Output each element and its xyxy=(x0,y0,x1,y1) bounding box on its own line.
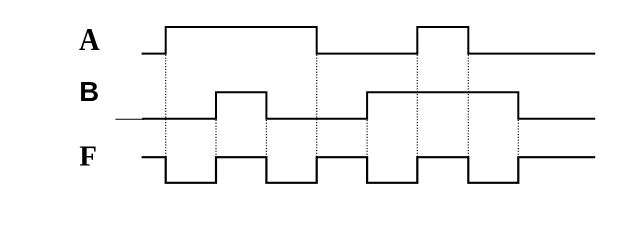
waveform B thin lead-in wire xyxy=(115,118,144,120)
waveform B trace (wire) xyxy=(142,92,595,118)
svg-text:B: B xyxy=(79,76,99,107)
dotted guide line t3 (B fall) xyxy=(265,120,267,157)
dotted guide line t5 (B rise) xyxy=(366,120,368,157)
waveform A trace (wire) xyxy=(142,27,596,54)
dotted guide line t7 (A fall) xyxy=(467,55,469,157)
waveform F trace (wire) xyxy=(142,157,596,183)
dotted guide line t8 (B fall) xyxy=(517,120,519,157)
svg-text:A: A xyxy=(79,22,100,58)
svg-text:F: F xyxy=(79,141,97,173)
dotted guide line t2 (B rise) xyxy=(215,120,217,157)
dotted guide line t6 (A rise) xyxy=(416,55,418,157)
dotted guide line t4 (A fall) xyxy=(316,55,318,157)
dotted guide line t1 (A rise) xyxy=(165,55,167,157)
